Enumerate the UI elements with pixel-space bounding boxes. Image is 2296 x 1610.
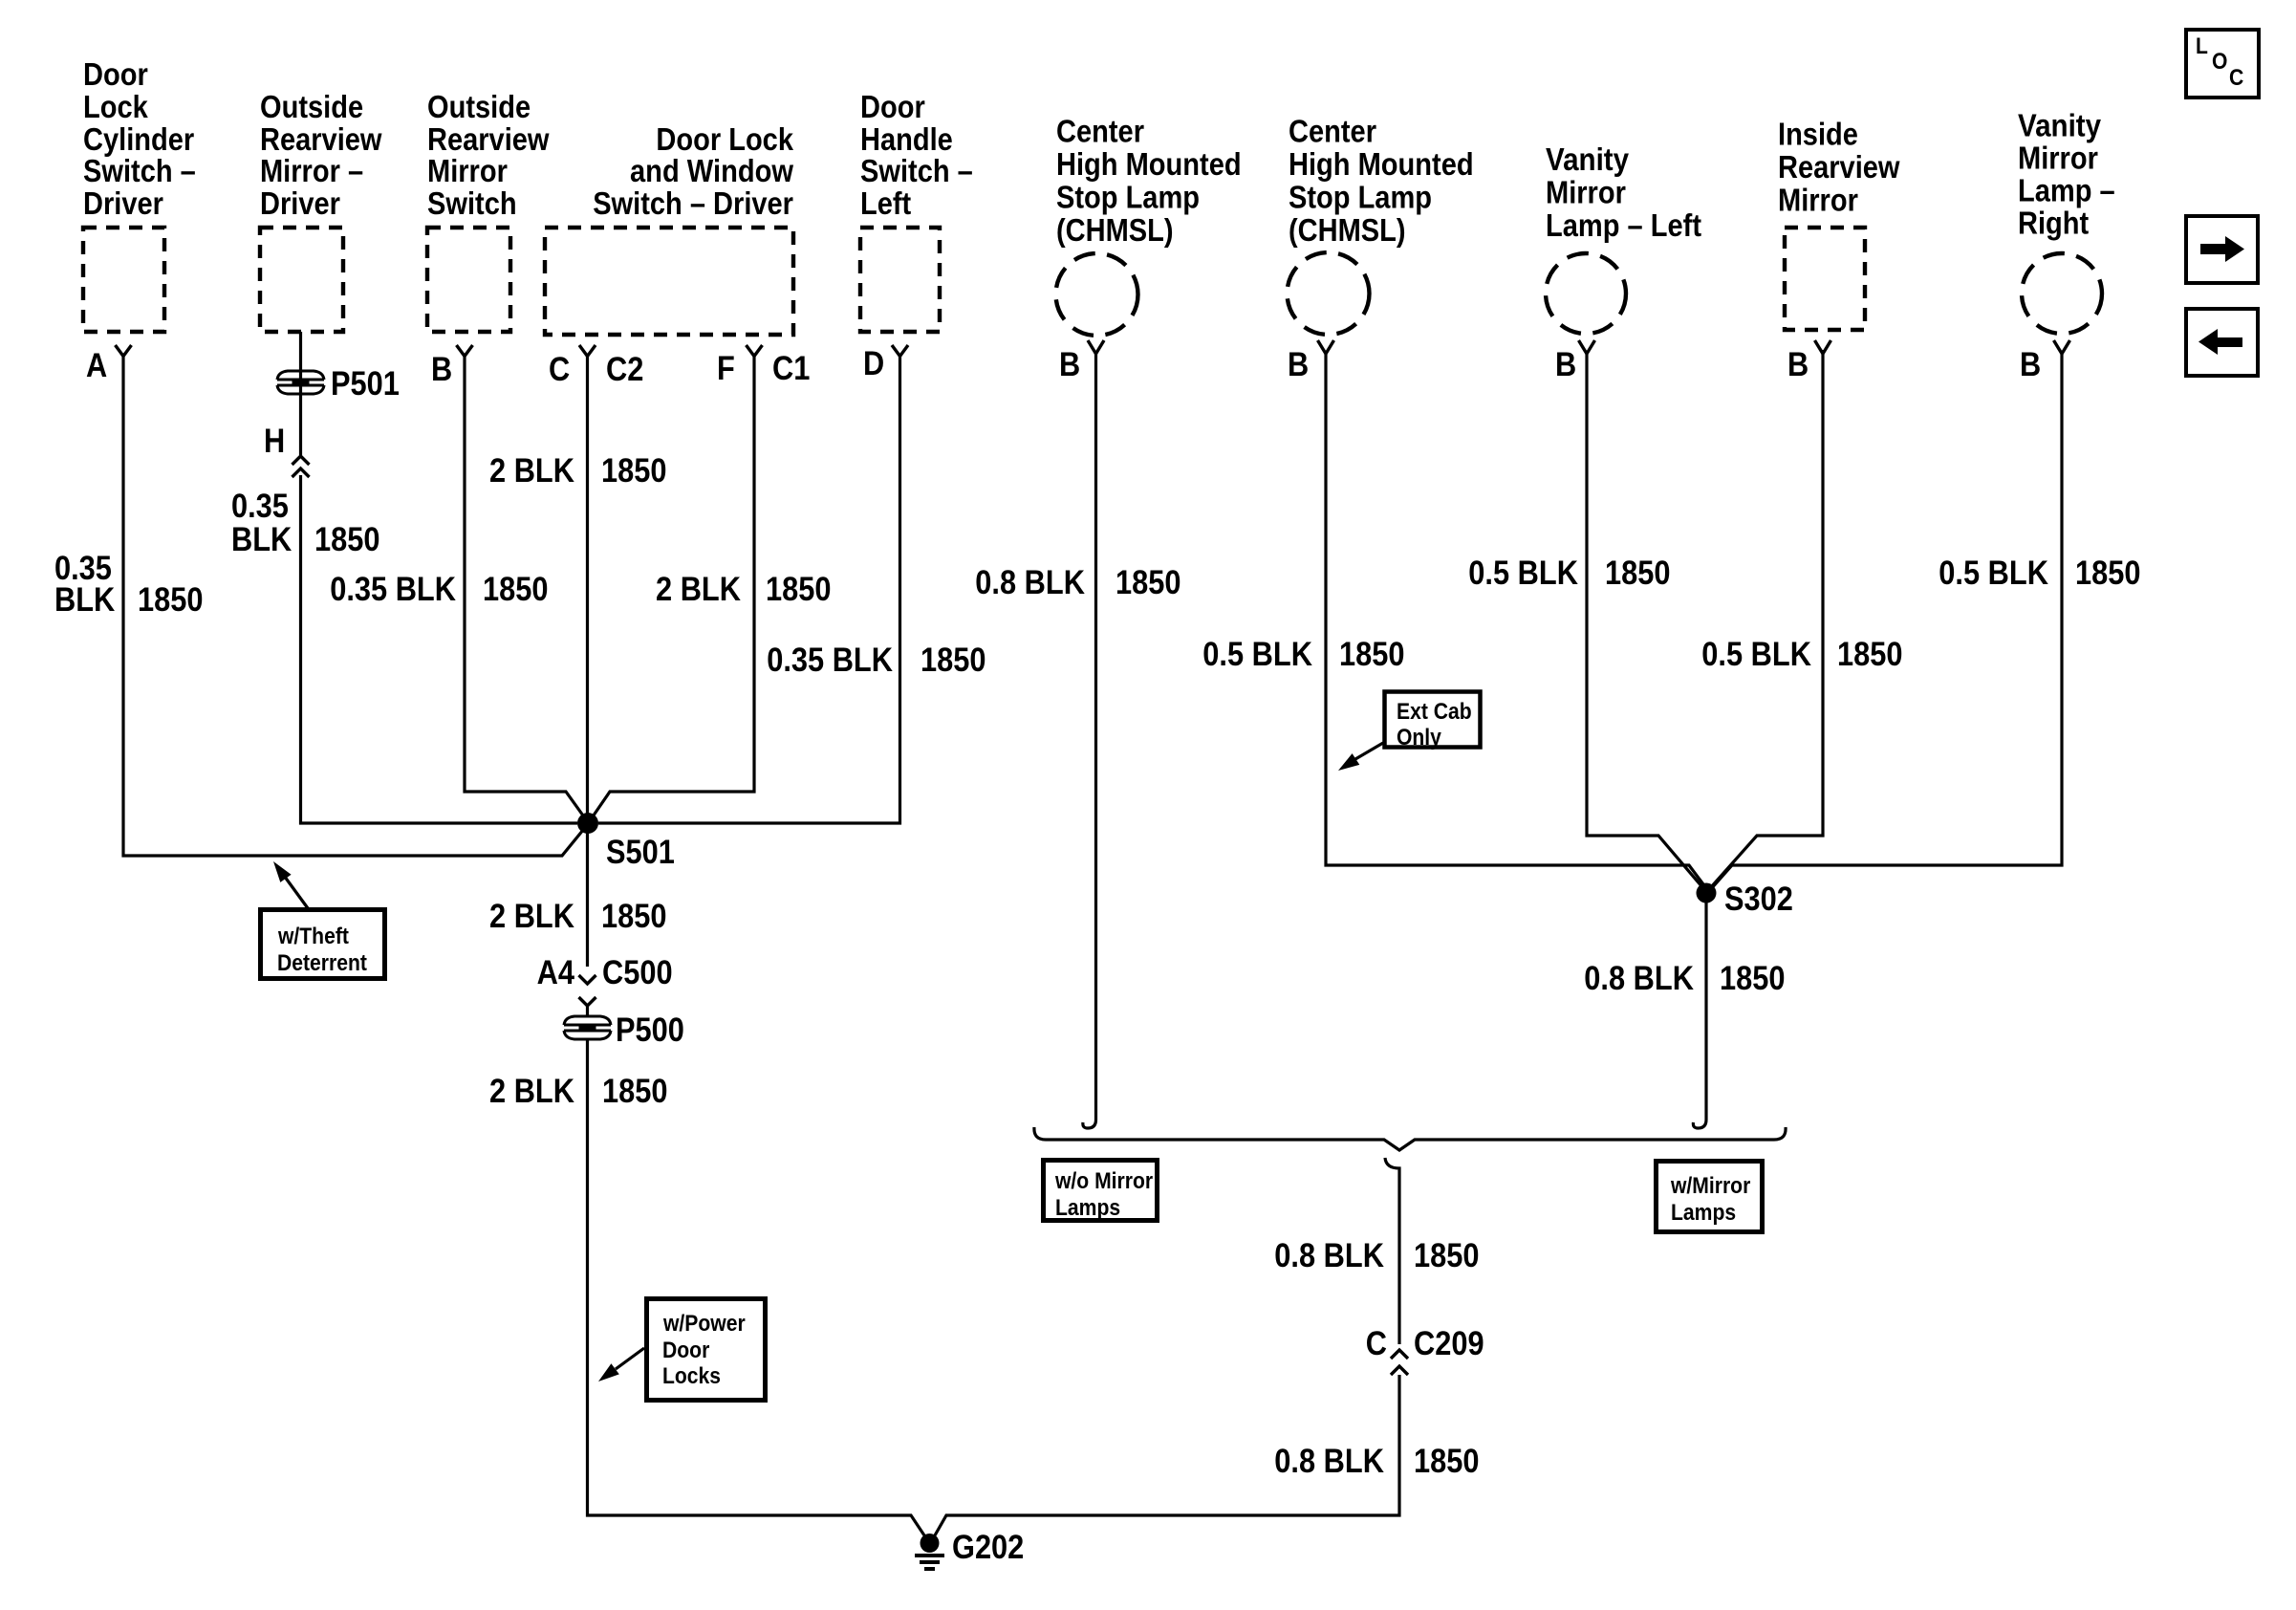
svg-text:Door Lock: Door Lock xyxy=(656,121,793,157)
wire: long ground wire from P500 down to G202 xyxy=(588,1040,925,1535)
wire label 2 BLK 1850 (below S501) xyxy=(489,898,667,935)
svg-text:w/Power: w/Power xyxy=(662,1311,746,1337)
wire label 0.5 BLK 1850 (vanity right wire) xyxy=(1939,555,2140,592)
wire: below H connector down and right to splice S501 xyxy=(301,475,578,823)
terminal fork: F pin of Door Lock and Window Switch xyxy=(747,345,763,357)
svg-text:0.35: 0.35 xyxy=(231,488,289,525)
svg-text:Handle: Handle xyxy=(860,121,953,157)
in-line connector C500, cavity A4 (double chevron down) xyxy=(537,954,673,1006)
svg-text:1850: 1850 xyxy=(1116,564,1181,601)
option brace joining w/o Mirror Lamps and w/Mirror Lamps branches xyxy=(1034,1127,1786,1150)
svg-text:Only: Only xyxy=(1397,725,1441,751)
dashed box: Outside Rearview Mirror - Driver xyxy=(260,228,343,332)
svg-text:Rearview: Rearview xyxy=(1778,149,1900,185)
component: Center High Mounted Stop Lamp (CHMSL) 1 xyxy=(1056,114,1242,249)
component: Inside Rearview Mirror xyxy=(1778,117,1900,218)
svg-text:0.5 BLK: 0.5 BLK xyxy=(1468,555,1578,592)
svg-text:Mirror –: Mirror – xyxy=(260,153,363,188)
option callout box: w/Power Door Locks xyxy=(647,1299,766,1401)
terminal fork: B pin of Vanity Mirror Lamp - Left xyxy=(1579,340,1595,354)
svg-text:Lamp –: Lamp – xyxy=(2018,173,2115,208)
svg-text:2 BLK: 2 BLK xyxy=(656,571,741,608)
svg-text:1850: 1850 xyxy=(1605,555,1671,592)
svg-text:0.8 BLK: 0.8 BLK xyxy=(1274,1237,1384,1274)
option callout box: Ext Cab Only xyxy=(1385,692,1481,751)
svg-text:1850: 1850 xyxy=(483,571,549,608)
terminal fork: B pin of CHMSL 2 xyxy=(1318,340,1334,354)
svg-text:1850: 1850 xyxy=(601,452,667,490)
option callout box: w/Theft Deterrent xyxy=(261,910,385,979)
svg-text:Deterrent: Deterrent xyxy=(277,950,367,976)
grommet P500 xyxy=(564,1025,611,1031)
svg-text:G202: G202 xyxy=(952,1529,1024,1566)
svg-text:Driver: Driver xyxy=(83,185,163,221)
wire: CHMSL 1 pin B long drop to option brace xyxy=(1083,354,1096,1128)
terminal fork: A pin of Door Lock Cylinder Switch xyxy=(116,345,132,357)
svg-text:w/Theft: w/Theft xyxy=(277,924,349,949)
arrow from w/Power Door Locks box to ground wire xyxy=(598,1348,644,1382)
svg-text:Lock: Lock xyxy=(83,89,148,124)
svg-text:(CHMSL): (CHMSL) xyxy=(1289,212,1406,248)
svg-text:Cylinder: Cylinder xyxy=(83,121,194,157)
wire label 0.5 BLK 1850 (CHMSL 2 wire) xyxy=(1202,636,1404,673)
wire label 0.5 BLK 1850 (inside rearview mirror wire) xyxy=(1701,636,1902,673)
dashed box: Door Handle Switch - Left xyxy=(860,228,940,332)
svg-text:High Mounted: High Mounted xyxy=(1056,146,1242,182)
svg-text:0.35 BLK: 0.35 BLK xyxy=(767,642,893,679)
svg-text:Vanity: Vanity xyxy=(2018,108,2102,143)
terminal fork: B pin of Inside Rearview Mirror xyxy=(1815,340,1831,354)
dashed lamp circle: Vanity Mirror Lamp - Right xyxy=(2022,253,2102,334)
svg-text:1850: 1850 xyxy=(1720,960,1786,997)
svg-text:Driver: Driver xyxy=(260,185,340,221)
svg-text:S302: S302 xyxy=(1724,881,1793,918)
svg-text:1850: 1850 xyxy=(138,581,204,619)
svg-text:Center: Center xyxy=(1056,114,1144,149)
svg-text:Rearview: Rearview xyxy=(260,121,382,157)
svg-text:1850: 1850 xyxy=(1339,636,1405,673)
svg-text:C: C xyxy=(549,351,570,388)
svg-text:P501: P501 xyxy=(331,365,400,402)
svg-text:Door: Door xyxy=(860,89,925,124)
svg-text:0.5 BLK: 0.5 BLK xyxy=(1202,636,1312,673)
svg-text:0.5 BLK: 0.5 BLK xyxy=(1939,555,2048,592)
option label box: w/o Mirror Lamps xyxy=(1044,1161,1158,1222)
dashed box: Door Lock Cylinder Switch - Driver xyxy=(83,228,164,332)
component: Door Handle Switch - Left xyxy=(860,89,973,221)
svg-text:w/Mirror: w/Mirror xyxy=(1670,1173,1750,1199)
svg-text:Vanity: Vanity xyxy=(1546,141,1630,177)
component: Center High Mounted Stop Lamp (CHMSL) 2 xyxy=(1289,114,1474,249)
option label box: w/Mirror Lamps xyxy=(1657,1162,1763,1232)
component: Outside Rearview Mirror Switch xyxy=(427,89,550,221)
svg-text:B: B xyxy=(2020,346,2041,383)
svg-text:C1: C1 xyxy=(772,350,810,387)
wire: between C500 and P500 xyxy=(586,1006,589,1015)
dashed lamp circle: Vanity Mirror Lamp - Left xyxy=(1546,253,1626,334)
svg-text:C: C xyxy=(2229,65,2243,91)
terminal fork: B pin of Outside Rearview Mirror Switch xyxy=(457,345,473,357)
svg-text:A4: A4 xyxy=(537,954,575,991)
svg-text:1850: 1850 xyxy=(1414,1443,1480,1480)
svg-text:Switch –: Switch – xyxy=(83,153,196,188)
wire label 2 BLK 1850 (C1 wire) xyxy=(656,571,832,608)
svg-text:w/o Mirror: w/o Mirror xyxy=(1054,1168,1153,1194)
svg-text:B: B xyxy=(1555,346,1576,383)
terminal fork: B pin of CHMSL 1 xyxy=(1088,340,1104,354)
svg-text:L: L xyxy=(2196,33,2208,59)
arrow from w/Theft Deterrent box to wire xyxy=(273,861,308,908)
svg-text:Inside: Inside xyxy=(1778,117,1858,152)
svg-text:Outside: Outside xyxy=(260,89,363,124)
svg-text:Mirror: Mirror xyxy=(1778,183,1858,218)
svg-text:1850: 1850 xyxy=(314,521,380,558)
legend: left arrow box xyxy=(2186,309,2258,376)
wire: pin F (C1) of door lock and window switch to splice S501 xyxy=(589,356,754,822)
svg-text:Stop Lamp: Stop Lamp xyxy=(1289,180,1432,215)
svg-text:Mirror: Mirror xyxy=(427,153,508,188)
svg-text:B: B xyxy=(431,351,452,388)
component: Outside Rearview Mirror - Driver xyxy=(260,89,382,221)
dashed lamp circle: CHMSL 1 xyxy=(1056,253,1138,336)
svg-text:B: B xyxy=(1059,346,1080,383)
svg-text:C: C xyxy=(1366,1325,1387,1362)
splice S302 junction dot xyxy=(1697,883,1717,903)
svg-text:Switch –: Switch – xyxy=(860,153,973,188)
wire: CHMSL 2 pin B down to splice S302 xyxy=(1326,354,1706,888)
terminal fork: C pin of Door Lock and Window Switch xyxy=(579,345,596,357)
svg-text:Left: Left xyxy=(860,185,911,221)
wire label 0.35 BLK 1850 (mirror switch wire) xyxy=(330,571,548,608)
svg-text:High Mounted: High Mounted xyxy=(1289,146,1474,182)
wire: pin B of outside rearview mirror switch to splice S501 xyxy=(465,356,588,822)
dashed box: Inside Rearview Mirror xyxy=(1785,228,1865,330)
wire: below C209 down and left to ground G202 xyxy=(935,1375,1399,1535)
ground G202 symbol xyxy=(915,1534,944,1569)
component: Vanity Mirror Lamp - Left xyxy=(1546,141,1701,243)
svg-text:Switch: Switch xyxy=(427,185,517,221)
svg-text:B: B xyxy=(1787,346,1809,383)
svg-text:0.5 BLK: 0.5 BLK xyxy=(1701,636,1811,673)
terminal fork: D pin of Door Handle Switch xyxy=(892,345,908,357)
dashed lamp circle: CHMSL 2 xyxy=(1288,252,1370,335)
svg-text:C2: C2 xyxy=(606,351,643,388)
svg-text:Lamp – Left: Lamp – Left xyxy=(1546,207,1701,243)
svg-text:Ext Cab: Ext Cab xyxy=(1397,699,1472,725)
svg-text:F: F xyxy=(717,350,735,387)
svg-text:C209: C209 xyxy=(1414,1325,1484,1362)
wire label 2 BLK 1850 (below P500) xyxy=(489,1073,668,1110)
arrow from Ext Cab Only box to CHMSL 2 wire xyxy=(1338,743,1383,771)
wire label 0.35 BLK 1850 (pin A wire) xyxy=(54,550,204,619)
in-line connector C209, cavity C (double chevron up) xyxy=(1366,1325,1484,1375)
svg-text:(CHMSL): (CHMSL) xyxy=(1056,212,1174,248)
svg-text:BLK: BLK xyxy=(231,521,292,558)
wire label 0.35 BLK 1850 (door handle wire) xyxy=(767,642,986,679)
svg-text:Stop Lamp: Stop Lamp xyxy=(1056,180,1200,215)
wire: pin C (C2) of door lock and window switch straight down through splice S501 xyxy=(586,356,589,967)
wire: pin A of door lock cylinder switch down and right to splice S501 xyxy=(123,356,588,856)
svg-text:Switch – Driver: Switch – Driver xyxy=(593,185,793,221)
svg-text:O: O xyxy=(2212,49,2227,75)
svg-text:1850: 1850 xyxy=(1414,1237,1480,1274)
component: Door Lock Cylinder Switch - Driver xyxy=(83,56,196,221)
wire label 0.35 BLK 1850 (P501 wire) xyxy=(231,488,380,558)
svg-text:1850: 1850 xyxy=(766,571,832,608)
svg-text:H: H xyxy=(264,423,285,460)
legend: LOC page box xyxy=(2186,30,2259,98)
svg-text:Mirror: Mirror xyxy=(1546,175,1626,210)
svg-text:S501: S501 xyxy=(606,834,675,871)
wire: outside rearview mirror driver through P501 to splice S501 xyxy=(299,332,302,455)
component: Door Lock and Window Switch - Driver xyxy=(593,121,793,221)
svg-text:A: A xyxy=(86,347,107,384)
wire: pin D of door handle switch down and left to splice S501 xyxy=(598,356,900,823)
svg-text:Lamps: Lamps xyxy=(1671,1200,1736,1226)
wire: Vanity Mirror Lamp Right pin B down to splice S302 xyxy=(1710,354,2062,890)
dashed box: Door Lock and Window Switch - Driver xyxy=(545,228,793,335)
svg-text:C500: C500 xyxy=(602,954,673,991)
svg-text:0.8 BLK: 0.8 BLK xyxy=(1274,1443,1384,1480)
grommet P501 xyxy=(277,380,324,385)
svg-text:Door: Door xyxy=(662,1338,709,1363)
svg-text:BLK: BLK xyxy=(54,581,115,619)
svg-text:Right: Right xyxy=(2018,206,2089,241)
svg-text:1850: 1850 xyxy=(2075,555,2141,592)
wire: splice S302 down to option brace xyxy=(1693,893,1706,1128)
svg-text:P500: P500 xyxy=(616,1012,684,1049)
svg-text:Mirror: Mirror xyxy=(2018,141,2098,176)
svg-text:1850: 1850 xyxy=(602,1073,668,1110)
wire: Vanity Mirror Lamp Left pin B down to splice S302 xyxy=(1587,354,1702,887)
wire label 0.8 BLK 1850 (below C209) xyxy=(1274,1443,1479,1480)
svg-text:and Window: and Window xyxy=(630,153,793,188)
wire label 0.5 BLK 1850 (vanity left wire) xyxy=(1468,555,1670,592)
svg-text:Rearview: Rearview xyxy=(427,121,550,157)
wire label 0.8 BLK 1850 (CHMSL 1 wire) xyxy=(975,564,1180,601)
terminal fork: B pin of Vanity Mirror Lamp - Right xyxy=(2054,340,2070,354)
svg-text:Lamps: Lamps xyxy=(1055,1195,1120,1221)
wire: Inside Rearview Mirror pin B down to splice S302 xyxy=(1711,350,1823,887)
svg-text:Locks: Locks xyxy=(662,1363,721,1389)
wire label 0.8 BLK 1850 (below S302) xyxy=(1584,960,1785,997)
svg-text:Center: Center xyxy=(1289,114,1376,149)
svg-text:1850: 1850 xyxy=(1837,636,1903,673)
svg-text:0.35 BLK: 0.35 BLK xyxy=(330,571,456,608)
component: Vanity Mirror Lamp - Right xyxy=(2018,108,2115,241)
svg-text:Door: Door xyxy=(83,56,148,92)
svg-text:2 BLK: 2 BLK xyxy=(489,452,574,490)
svg-text:Outside: Outside xyxy=(427,89,531,124)
wire label 0.8 BLK 1850 (above C209) xyxy=(1274,1237,1479,1274)
dashed box: Outside Rearview Mirror Switch xyxy=(427,228,510,332)
wire label 2 BLK 1850 (C2 wire) xyxy=(489,452,667,490)
svg-text:1850: 1850 xyxy=(921,642,986,679)
svg-text:0.8 BLK: 0.8 BLK xyxy=(975,564,1085,601)
svg-text:2 BLK: 2 BLK xyxy=(489,1073,574,1110)
svg-text:0.8 BLK: 0.8 BLK xyxy=(1584,960,1694,997)
svg-text:1850: 1850 xyxy=(601,898,667,935)
legend: right arrow box xyxy=(2186,216,2258,283)
off-page connector H (double chevron up) xyxy=(292,456,310,477)
svg-text:2 BLK: 2 BLK xyxy=(489,898,574,935)
svg-text:B: B xyxy=(1288,346,1309,383)
svg-text:D: D xyxy=(863,345,884,382)
splice S501 junction dot xyxy=(577,813,598,834)
wire: from brace nub down (curled start) to connector C209 xyxy=(1385,1158,1399,1344)
